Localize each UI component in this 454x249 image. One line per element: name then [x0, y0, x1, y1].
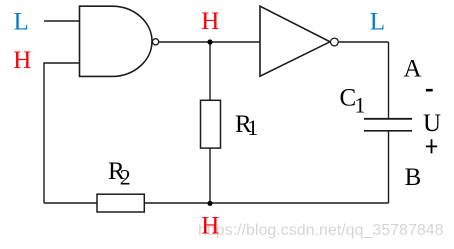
- svg-text:U: U: [423, 110, 441, 137]
- svg-text:1: 1: [247, 115, 258, 140]
- svg-text:1: 1: [355, 93, 366, 118]
- svg-text:https://blog.csdn.net/qq_35787: https://blog.csdn.net/qq_35787848: [198, 222, 444, 239]
- svg-text:2: 2: [120, 165, 131, 190]
- svg-text:H: H: [201, 8, 219, 35]
- svg-text:B: B: [405, 164, 422, 191]
- svg-text:L: L: [370, 8, 385, 35]
- svg-text:A: A: [404, 56, 422, 83]
- svg-text:L: L: [14, 8, 29, 35]
- svg-text:H: H: [13, 47, 31, 74]
